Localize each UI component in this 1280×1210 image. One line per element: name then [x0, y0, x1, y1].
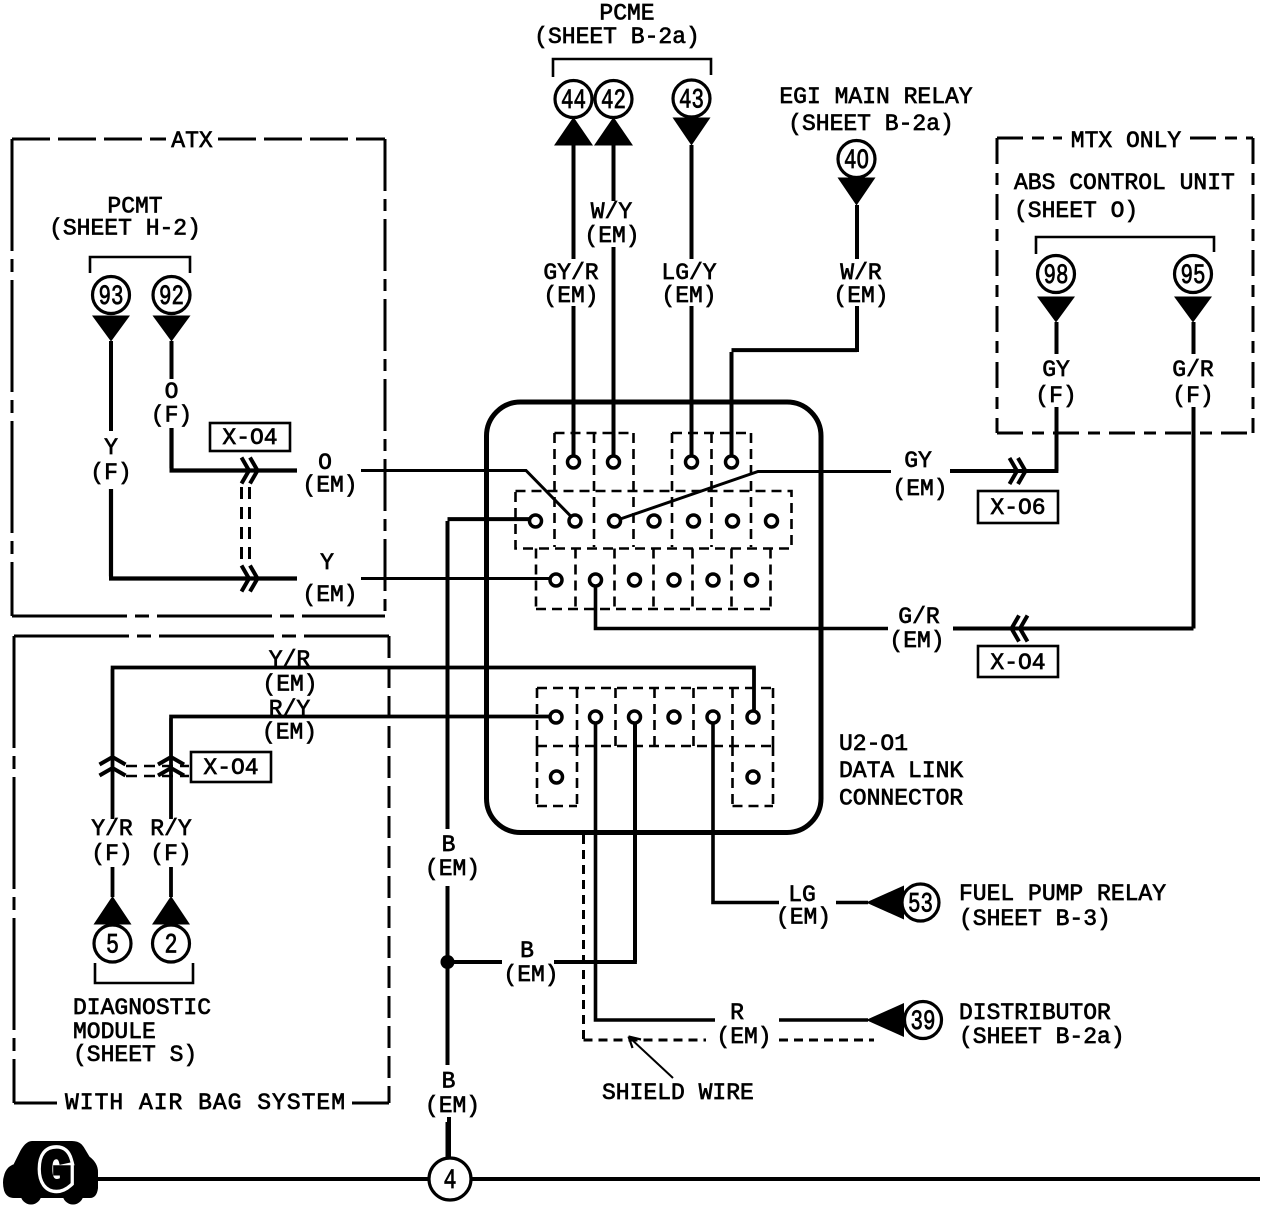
svg-text:2: 2 — [165, 931, 178, 962]
pin bottom row 2 — [590, 574, 602, 586]
svg-text:DATA LINK: DATA LINK — [839, 758, 963, 784]
pin lower top row 3 — [629, 711, 641, 723]
svg-text:(EM): (EM) — [302, 473, 357, 499]
terminal 92 — [153, 277, 190, 314]
pointer arrow to shield wire — [629, 1037, 673, 1078]
wire GY (F) — [1055, 322, 1059, 471]
svg-text:42: 42 — [601, 86, 626, 117]
svg-text:(SHEET B-3): (SHEET B-3) — [959, 906, 1111, 932]
connector U2-01 outline — [487, 402, 822, 833]
svg-text:(SHEET O): (SHEET O) — [1014, 198, 1138, 224]
svg-text:(F): (F) — [90, 460, 131, 486]
pin mid row 4 — [648, 515, 660, 527]
svg-text:(F): (F) — [150, 841, 191, 867]
svg-text:X-O6: X-O6 — [990, 495, 1045, 521]
svg-text:MTX ONLY: MTX ONLY — [1071, 128, 1182, 154]
svg-text:W/Y: W/Y — [591, 199, 633, 225]
pin lower top row 5 — [707, 711, 719, 723]
svg-text:4: 4 — [444, 1166, 457, 1197]
connector reference X-04 box air bag — [191, 752, 271, 782]
svg-text:(SHEET B-2a): (SHEET B-2a) — [534, 24, 700, 50]
svg-text:Y: Y — [320, 550, 334, 576]
chevron on Y/R wire pointing up — [100, 757, 126, 776]
wire LG (EM) — [713, 724, 868, 905]
wire R/Y (EM) — [169, 717, 550, 820]
lower block tall left cell dashed — [537, 746, 577, 806]
svg-text:(EM): (EM) — [503, 962, 558, 988]
svg-text:4O: 4O — [844, 146, 869, 177]
terminal 95 — [1175, 256, 1212, 293]
pin lower top row 4 — [668, 711, 680, 723]
wire O (F) from terminal 92 — [170, 341, 174, 379]
bracket diagnostic module pins — [95, 963, 193, 983]
terminal 42 — [595, 81, 632, 118]
bracket PCMT pins — [90, 257, 190, 273]
svg-text:(SHEET B-2a): (SHEET B-2a) — [959, 1024, 1125, 1050]
lower block tall right cell dashed — [733, 746, 774, 806]
pin bottom row 3 — [629, 574, 641, 586]
arrow into terminal 2 — [152, 896, 190, 925]
pin top row 2 — [608, 456, 620, 468]
svg-text:B: B — [442, 832, 456, 858]
svg-text:(EM): (EM) — [262, 720, 317, 746]
wire Y/R (F) — [111, 867, 115, 897]
box MTX ONLY border top — [997, 137, 1253, 140]
svg-text:(F): (F) — [1035, 383, 1076, 409]
wire O (EM) into connector diagonal — [361, 471, 575, 521]
terminal 40 — [838, 141, 875, 178]
pin top row 1 — [568, 456, 580, 468]
svg-text:(EM): (EM) — [425, 856, 480, 882]
wire B (EM) horizontal into pin — [448, 517, 531, 521]
box MTX ONLY border left — [996, 138, 999, 433]
svg-text:FUEL PUMP RELAY: FUEL PUMP RELAY — [959, 881, 1166, 907]
arrow into terminal 5 — [94, 896, 132, 925]
wire W/R jog into connector pin — [732, 350, 858, 455]
terminal 39 — [905, 1002, 942, 1039]
svg-text:B: B — [520, 938, 534, 964]
pin bottom row 6 — [746, 574, 758, 586]
pin lower bottom row 2 — [747, 771, 759, 783]
chevron on Y (EM) pointing right — [242, 566, 258, 592]
arrow out of terminal 95 — [1174, 297, 1212, 323]
box air bag border top — [14, 635, 389, 638]
pin bottom row 1 — [550, 574, 562, 586]
lower block top cells dashed — [537, 688, 773, 746]
pin mid row 5 — [688, 515, 700, 527]
arrow into terminal 44 — [554, 117, 593, 146]
terminal 5 — [94, 925, 131, 962]
svg-text:ATX: ATX — [171, 128, 213, 154]
wire Y (EM) into connector — [361, 577, 552, 580]
dashed link between chevrons and X-04 — [126, 766, 189, 776]
arrow out of terminal 40 — [838, 178, 876, 206]
svg-text:(EM): (EM) — [262, 672, 317, 698]
svg-text:92: 92 — [159, 282, 184, 313]
wire B (EM) vertical main — [446, 521, 450, 1158]
svg-text:(EM): (EM) — [543, 283, 598, 309]
svg-text:98: 98 — [1044, 261, 1069, 292]
svg-text:95: 95 — [1181, 261, 1206, 292]
pin mid row 3 — [609, 515, 621, 527]
upper block top cell group 1 dashed — [555, 433, 634, 547]
svg-text:(EM): (EM) — [776, 905, 831, 931]
wire ground rail right — [472, 1177, 1261, 1181]
svg-text:53: 53 — [908, 890, 933, 921]
svg-text:WITH AIR BAG SYSTEM: WITH AIR BAG SYSTEM — [65, 1090, 345, 1116]
svg-text:X-O4: X-O4 — [203, 755, 258, 781]
chevron on GY (EM) pointing right — [1010, 458, 1026, 484]
svg-text:EGI MAIN RELAY: EGI MAIN RELAY — [779, 84, 972, 110]
svg-text:(F): (F) — [151, 403, 192, 429]
svg-text:SHIELD WIRE: SHIELD WIRE — [602, 1080, 754, 1106]
svg-text:DISTRIBUTOR: DISTRIBUTOR — [959, 1000, 1111, 1026]
pin bottom row 4 — [668, 574, 680, 586]
ground car symbol G — [5, 1143, 96, 1205]
svg-text:(SHEET S): (SHEET S) — [73, 1042, 197, 1068]
svg-text:(EM): (EM) — [892, 476, 947, 502]
pin lower top row 1 — [550, 711, 562, 723]
wire into terminal 4 — [447, 1117, 451, 1157]
svg-text:5: 5 — [106, 931, 119, 962]
terminal 4 — [429, 1158, 471, 1200]
terminal 43 — [673, 80, 710, 117]
box MTX ONLY border right — [1252, 138, 1255, 433]
arrow into terminal 39 — [866, 1003, 904, 1037]
chevron on G/R (EM) pointing left — [1012, 616, 1028, 642]
svg-text:(F): (F) — [1172, 383, 1213, 409]
wire LG/Y from terminal 43 — [690, 145, 694, 455]
upper block bottom cells dashed — [536, 549, 771, 610]
svg-text:GY: GY — [904, 448, 932, 474]
svg-text:PCME: PCME — [599, 1, 654, 27]
arrow out of terminal 43 — [673, 118, 711, 146]
svg-text:G: G — [41, 1143, 71, 1204]
svg-text:DIAGNOSTIC: DIAGNOSTIC — [73, 995, 211, 1021]
svg-text:CONNECTOR: CONNECTOR — [839, 786, 963, 812]
wire R (EM) — [596, 724, 869, 1022]
svg-text:(EM): (EM) — [833, 283, 888, 309]
dashed pair linking X-04 chevrons — [242, 487, 250, 563]
svg-text:(F): (F) — [91, 841, 132, 867]
terminal 44 — [555, 81, 592, 118]
terminal 2 — [153, 925, 190, 962]
pin mid row 1 — [530, 515, 542, 527]
connector reference X-04 box ATX — [210, 423, 290, 451]
upper block top cell group 2 dashed — [672, 433, 751, 547]
pin mid row 7 — [766, 515, 778, 527]
svg-text:(EM): (EM) — [889, 628, 944, 654]
pin lower top row 2 — [590, 711, 602, 723]
bracket ABS pins — [1036, 237, 1214, 254]
svg-text:(EM): (EM) — [584, 223, 639, 249]
wire G/R (EM) drop from pin and left segment — [596, 586, 889, 629]
box ATX border top — [12, 138, 385, 141]
pin lower top row 6 — [747, 711, 759, 723]
wire GY (EM) left segment from connector diagonal — [615, 472, 892, 522]
junction dot B wire — [441, 955, 455, 969]
box air bag border right — [388, 636, 391, 1103]
svg-text:R: R — [730, 1000, 744, 1026]
arrow out of terminal 92 — [153, 316, 191, 342]
wire B (EM) branch to connector — [448, 724, 637, 963]
svg-text:(EM): (EM) — [425, 1093, 480, 1119]
wire G/R (F) — [1192, 322, 1196, 629]
svg-text:(EM): (EM) — [661, 283, 716, 309]
wire GY (EM) right segment — [950, 469, 1058, 473]
svg-text:(EM): (EM) — [302, 582, 357, 608]
upper block middle long cell dashed — [516, 491, 792, 549]
svg-text:G/R: G/R — [1172, 357, 1214, 383]
svg-text:(EM): (EM) — [716, 1024, 771, 1050]
pin top row 4 — [726, 456, 738, 468]
wire W/R from terminal 40 — [855, 205, 859, 352]
chevron on O (EM) pointing right — [242, 458, 258, 484]
pin top row 3 — [686, 456, 698, 468]
arrow into terminal 53 — [866, 886, 904, 920]
shield wire dashed run — [584, 835, 875, 1040]
terminal 93 — [93, 277, 130, 314]
wire GY/R from terminal 44 — [572, 145, 576, 455]
box ATX border bottom — [12, 615, 385, 618]
pin mid row 6 — [727, 515, 739, 527]
svg-text:U2-O1: U2-O1 — [839, 731, 908, 757]
bracket PCME pins — [553, 59, 711, 77]
svg-text:Y/R: Y/R — [269, 647, 311, 673]
svg-text:93: 93 — [99, 282, 124, 313]
box ATX border right — [384, 139, 387, 616]
svg-text:O: O — [165, 379, 179, 405]
box ATX border left — [11, 139, 14, 616]
box air bag border bottom — [14, 1085, 389, 1103]
arrow out of terminal 93 — [92, 316, 130, 342]
arrow into terminal 42 — [594, 117, 633, 146]
terminal 53 — [902, 884, 939, 921]
wire O lower run from 92 to O (EM) row — [170, 428, 298, 471]
connector reference X-04 box right — [978, 646, 1058, 677]
box air bag border left — [13, 636, 16, 1103]
wire Y/R (EM) — [111, 668, 756, 820]
svg-text:44: 44 — [561, 86, 586, 117]
arrow out of terminal 98 — [1037, 297, 1075, 323]
svg-text:X-O4: X-O4 — [990, 650, 1045, 676]
pin bottom row 5 — [707, 574, 719, 586]
svg-text:R/Y: R/Y — [150, 816, 192, 842]
svg-text:(SHEET B-2a): (SHEET B-2a) — [788, 111, 954, 137]
svg-text:ABS CONTROL UNIT: ABS CONTROL UNIT — [1014, 170, 1235, 196]
box MTX ONLY border bottom — [997, 432, 1253, 435]
connector reference X-06 box — [978, 491, 1058, 523]
wire R/Y (F) — [169, 867, 173, 897]
wire ground rail left — [96, 1177, 428, 1181]
svg-text:G/R: G/R — [898, 604, 940, 630]
svg-text:Y: Y — [104, 435, 118, 461]
svg-text:(SHEET H-2): (SHEET H-2) — [49, 216, 201, 242]
svg-text:39: 39 — [911, 1007, 936, 1038]
wire W/Y from terminal 42 — [612, 145, 616, 455]
svg-text:X-O4: X-O4 — [222, 425, 277, 451]
svg-text:B: B — [442, 1069, 456, 1095]
chevron on R/Y wire pointing up — [158, 757, 184, 776]
pin lower bottom row 1 — [551, 771, 563, 783]
wire Y (F) from terminal 93 — [109, 341, 113, 431]
pin mid row 2 — [569, 515, 581, 527]
svg-text:43: 43 — [679, 86, 704, 117]
wire G/R (EM) right segment — [953, 627, 1194, 631]
wire Y lower run from 93 to Y (EM) row — [109, 489, 297, 579]
svg-text:Y/R: Y/R — [91, 816, 133, 842]
svg-text:GY: GY — [1042, 357, 1070, 383]
terminal 98 — [1038, 256, 1075, 293]
